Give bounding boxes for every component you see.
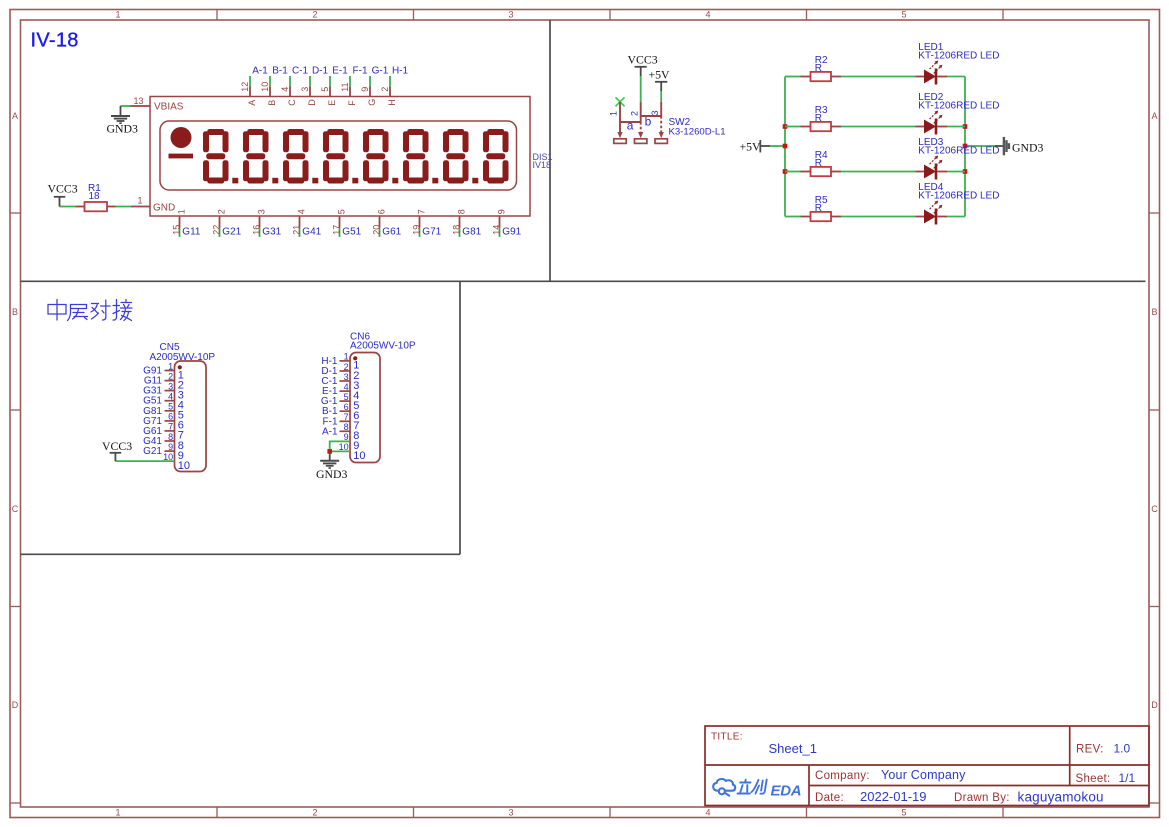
pin 21 (4) of DIS1	[292, 209, 307, 237]
pin 18 (8) of DIS1	[452, 209, 467, 237]
svg-text:a: a	[627, 119, 634, 133]
svg-text:3: 3	[508, 10, 513, 20]
svg-text:A: A	[247, 100, 257, 106]
digit 2	[243, 129, 269, 184]
wire R4 to LED3	[841, 171, 916, 173]
svg-text:7: 7	[417, 209, 427, 214]
svg-text:G91: G91	[502, 227, 521, 238]
wire CN6 pin9 to gnd	[330, 441, 350, 451]
junction right bus row3	[963, 169, 968, 174]
wire VCC3 to SW2 pin2	[640, 76, 642, 102]
CN6 pin 9	[344, 432, 360, 452]
wire +5V to left bus	[770, 145, 785, 147]
svg-text:20: 20	[372, 225, 382, 235]
pin 17 (5) of DIS1	[332, 209, 347, 237]
svg-text:D: D	[307, 99, 317, 106]
svg-text:K3-1260D-L1: K3-1260D-L1	[669, 127, 726, 138]
power flag +5V at led array	[740, 140, 771, 154]
svg-text:B: B	[12, 307, 18, 317]
svg-text:VCC3: VCC3	[48, 182, 78, 196]
svg-text:5: 5	[901, 10, 906, 20]
svg-text:C: C	[1151, 504, 1158, 514]
svg-text:1: 1	[344, 352, 349, 362]
svg-text:14: 14	[492, 225, 502, 235]
connector CN6 A2005WV-10P	[316, 331, 416, 481]
row 1: wire bus to R2	[785, 76, 801, 78]
svg-text:2022-01-19: 2022-01-19	[860, 789, 927, 804]
svg-text:A2005WV-10P: A2005WV-10P	[350, 341, 416, 352]
no-connect X on SW2 pin1	[616, 97, 625, 106]
svg-text:EDA: EDA	[771, 783, 802, 800]
CN5 pin 1	[165, 361, 184, 381]
svg-text:1: 1	[115, 10, 120, 20]
pin 4 (C) of DIS1	[280, 76, 297, 106]
title block frame	[705, 726, 1149, 806]
wire +5V to SW2 pin3	[660, 91, 662, 102]
pin 1 (GND) of DIS1	[131, 195, 150, 206]
svg-text:1: 1	[115, 808, 120, 818]
svg-text:F: F	[347, 100, 357, 106]
junction at CN6 gnd	[327, 449, 332, 454]
svg-text:3: 3	[508, 808, 513, 818]
section divider lines	[21, 20, 1146, 554]
pin 16 (3) of DIS1	[252, 209, 267, 237]
wire R5 to LED4	[841, 216, 916, 218]
digit 1	[203, 129, 229, 184]
svg-text:9: 9	[360, 87, 370, 92]
svg-text:15: 15	[172, 225, 182, 235]
decimal point 4	[352, 178, 358, 184]
svg-text:G21: G21	[222, 227, 241, 238]
decimal point 5	[392, 178, 398, 184]
wire left bus	[784, 77, 786, 217]
digit 6	[403, 129, 429, 184]
svg-text:5: 5	[344, 392, 349, 402]
digit 5	[363, 129, 389, 184]
CN5 pin 6	[165, 412, 184, 432]
section label 中层对接 (drawn strokes)	[48, 300, 132, 321]
svg-text:B-1: B-1	[272, 66, 288, 77]
svg-text:10: 10	[178, 460, 190, 472]
pin 5 (E) of DIS1	[320, 76, 337, 106]
svg-text:5: 5	[320, 87, 330, 92]
svg-text:1: 1	[177, 209, 187, 214]
row 4: wire bus to R5	[785, 216, 801, 218]
resistor R5	[801, 195, 842, 221]
power flag VCC3 at SW2	[628, 53, 658, 76]
power flag VCC3 at R1	[48, 182, 78, 207]
SW2 pole 2 leg	[640, 122, 642, 133]
svg-text:G61: G61	[382, 227, 401, 238]
svg-text:E: E	[327, 100, 337, 106]
pin 13 (VBIAS) of DIS1	[131, 96, 151, 106]
digit 3	[283, 129, 309, 184]
CN5 pin 4	[165, 392, 184, 412]
svg-text:19: 19	[412, 225, 422, 235]
svg-text:4: 4	[280, 87, 290, 92]
DIS1 inner display window	[160, 121, 517, 190]
svg-text:16: 16	[252, 225, 262, 235]
svg-text:2: 2	[344, 362, 349, 372]
svg-text:C: C	[287, 99, 297, 106]
connector CN5 A2005WV-10P	[102, 342, 215, 472]
pin 12 (A) of DIS1	[240, 76, 257, 106]
pin 2 (H) of DIS1	[380, 76, 397, 106]
ground GND3 at CN6	[320, 451, 339, 468]
svg-text:Date:: Date:	[815, 792, 844, 804]
svg-text:2: 2	[217, 209, 227, 214]
svg-text:Company:: Company:	[815, 770, 870, 782]
pin 22 (2) of DIS1	[212, 209, 227, 237]
svg-text:A: A	[12, 111, 18, 121]
CN6 pin 7	[340, 412, 360, 432]
svg-text:18: 18	[89, 191, 101, 202]
svg-text:4: 4	[344, 382, 349, 392]
svg-text:3: 3	[650, 110, 660, 115]
CN5 pin 8	[165, 432, 184, 452]
pin 15 (1) of DIS1	[172, 209, 187, 237]
svg-text:Sheet_1: Sheet_1	[769, 741, 817, 756]
resistor R2	[801, 55, 842, 81]
pin 3 (D) of DIS1	[300, 76, 317, 106]
decimal point 6	[432, 178, 438, 184]
decimal point 2	[272, 178, 278, 184]
led LED4 KT-1206RED	[916, 182, 1000, 224]
svg-text:A-1: A-1	[322, 426, 338, 437]
svg-text:8: 8	[344, 422, 349, 432]
ground GND3 at led array	[1004, 137, 1009, 155]
digit 8	[483, 129, 509, 184]
resistor R3	[801, 105, 842, 131]
svg-text:+5V: +5V	[649, 68, 671, 82]
svg-text:A-1: A-1	[252, 66, 268, 77]
CN6 pin 10	[339, 442, 366, 462]
power flag VCC3 at CN5	[102, 439, 132, 461]
svg-text:KT-1206RED LED: KT-1206RED LED	[918, 50, 999, 61]
svg-text:kaguyamokou: kaguyamokou	[1018, 789, 1104, 804]
SW2 pin 2	[640, 102, 642, 122]
svg-text:6: 6	[377, 209, 387, 214]
logo text 立创 (drawn)	[737, 780, 766, 794]
wire LED4 to right bus	[947, 216, 965, 218]
svg-text:9: 9	[497, 209, 507, 214]
svg-text:4: 4	[168, 392, 173, 402]
svg-text:R: R	[815, 203, 822, 214]
svg-text:G: G	[367, 99, 377, 106]
wire right bus	[964, 77, 966, 217]
CN5 pin 9	[165, 442, 184, 462]
svg-text:G41: G41	[302, 227, 321, 238]
svg-text:E-1: E-1	[332, 66, 348, 77]
svg-text:+5V: +5V	[740, 140, 762, 154]
wire GND3 tap	[965, 145, 995, 147]
CN6 pin 2	[340, 362, 360, 382]
svg-text:3: 3	[300, 87, 310, 92]
svg-text:13: 13	[133, 96, 143, 106]
svg-text:IV18: IV18	[533, 160, 552, 170]
svg-text:1: 1	[168, 361, 173, 371]
SW2 pole 1 leg	[619, 122, 621, 133]
svg-text:TITLE:: TITLE:	[711, 732, 743, 743]
svg-text:4: 4	[705, 10, 710, 20]
junction left bus row3	[783, 169, 788, 174]
led LED2 KT-1206RED	[916, 92, 1000, 134]
CN6 pin 8	[340, 422, 360, 442]
CN5 pin 3	[165, 381, 184, 401]
svg-text:VCC3: VCC3	[102, 439, 132, 453]
resistor R1	[76, 183, 116, 211]
wire R1 to pin1	[116, 206, 132, 208]
svg-text:A: A	[1151, 111, 1157, 121]
CN5 pin 5	[165, 402, 184, 422]
svg-text:Sheet:: Sheet:	[1076, 773, 1111, 785]
svg-text:5: 5	[901, 808, 906, 818]
DIS1 minus segment	[169, 154, 194, 159]
wire CN6 pin10 to gnd	[330, 450, 350, 452]
led LED1 KT-1206RED	[916, 42, 1000, 84]
svg-text:G11: G11	[182, 227, 201, 238]
pin 11 (F) of DIS1	[340, 76, 357, 106]
svg-text:2: 2	[168, 371, 173, 381]
CN5 pin 10	[163, 452, 190, 472]
wire LED1 to right bus	[947, 76, 965, 78]
pin 10 (B) of DIS1	[260, 76, 277, 106]
wire VCC3 to R1	[60, 206, 76, 208]
svg-text:3: 3	[168, 381, 173, 391]
pin 20 (6) of DIS1	[372, 209, 387, 237]
svg-text:17: 17	[332, 225, 342, 235]
svg-text:H-1: H-1	[392, 66, 409, 77]
pin 9 (G) of DIS1	[360, 76, 377, 106]
svg-text:Your Company: Your Company	[881, 768, 966, 782]
svg-text:4: 4	[297, 209, 307, 214]
svg-text:1: 1	[609, 111, 619, 116]
junction at GND3 tap	[963, 144, 968, 149]
svg-text:22: 22	[212, 225, 222, 235]
svg-text:H: H	[387, 99, 397, 106]
svg-text:C: C	[12, 504, 19, 514]
svg-text:1/1: 1/1	[1119, 771, 1136, 785]
svg-text:G21: G21	[143, 446, 162, 457]
SW2 pin 3	[660, 102, 662, 116]
svg-text:GND3: GND3	[1012, 140, 1044, 154]
svg-text:6: 6	[168, 412, 173, 422]
svg-text:7: 7	[168, 422, 173, 432]
digit 4	[323, 129, 349, 184]
wire R3 to LED2	[841, 126, 916, 128]
svg-text:7: 7	[344, 412, 349, 422]
CN6 pin 5	[340, 392, 360, 412]
svg-text:VCC3: VCC3	[628, 53, 658, 67]
svg-text:4: 4	[705, 808, 710, 818]
svg-text:G71: G71	[422, 227, 441, 238]
CN5 pin 2	[165, 371, 184, 391]
svg-text:IV-18: IV-18	[31, 30, 79, 52]
SW2 contact a	[620, 121, 641, 123]
svg-text:D-1: D-1	[312, 66, 329, 77]
svg-text:R: R	[815, 63, 822, 74]
svg-text:2: 2	[312, 10, 317, 20]
junction left bus row2	[783, 124, 788, 129]
svg-text:8: 8	[457, 209, 467, 214]
svg-text:Drawn By:: Drawn By:	[954, 792, 1010, 804]
SW2 contact b	[641, 115, 662, 117]
decimal point 3	[312, 178, 318, 184]
svg-text:B: B	[1151, 307, 1157, 317]
svg-text:B: B	[267, 100, 277, 106]
svg-text:10: 10	[260, 82, 270, 92]
title block	[705, 726, 1149, 806]
svg-text:12: 12	[240, 82, 250, 92]
decimal point 1	[232, 178, 238, 184]
led array section	[740, 42, 1044, 224]
svg-text:5: 5	[337, 209, 347, 214]
digit 7	[443, 129, 469, 184]
wire pin13 to GND3	[121, 105, 131, 107]
svg-text:6: 6	[344, 402, 349, 412]
wire CN5 pin10 to VCC3	[115, 460, 174, 462]
ground GND3 at DIS1	[111, 106, 130, 123]
svg-text:D: D	[12, 700, 19, 710]
svg-text:3: 3	[344, 372, 349, 382]
SW2 pin 1	[619, 102, 621, 122]
resistor R4	[801, 150, 842, 176]
svg-text:1.0: 1.0	[1114, 742, 1131, 756]
svg-text:C-1: C-1	[292, 66, 309, 77]
row 2: wire bus to R3	[785, 126, 801, 128]
wire R2 to LED1	[841, 76, 916, 78]
svg-text:R: R	[815, 158, 822, 169]
svg-text:10: 10	[353, 450, 365, 462]
switch SW2 K3-1260D-L1	[609, 53, 726, 144]
led LED3 KT-1206RED	[916, 137, 1000, 179]
decimal point 7	[472, 178, 478, 184]
CN5 pin 7	[165, 422, 184, 442]
CN6 pin 6	[340, 402, 360, 422]
svg-text:b: b	[645, 114, 652, 128]
row 3: wire bus to R4	[785, 171, 801, 173]
svg-text:11: 11	[340, 82, 350, 91]
svg-text:2: 2	[380, 87, 390, 92]
svg-text:18: 18	[452, 225, 462, 235]
svg-text:G51: G51	[342, 227, 361, 238]
CN6 pin 3	[340, 372, 360, 392]
CN6 body	[350, 353, 380, 463]
SW2 pole 3 leg	[660, 116, 662, 133]
svg-text:VBIAS: VBIAS	[154, 101, 184, 112]
junction right bus row2	[963, 124, 968, 129]
svg-text:1: 1	[137, 195, 142, 205]
svg-text:GND3: GND3	[107, 121, 139, 135]
CN6 pin 1	[340, 352, 360, 372]
svg-text:G-1: G-1	[372, 66, 389, 77]
wire LED2 to right bus	[947, 126, 965, 128]
pin 14 (9) of DIS1	[492, 209, 507, 237]
svg-text:2: 2	[629, 111, 639, 116]
power flag +5V at SW2	[649, 68, 671, 91]
svg-text:9: 9	[168, 442, 173, 452]
wire LED3 to right bus	[947, 171, 965, 173]
svg-text:G31: G31	[262, 227, 281, 238]
CN6 pin 4	[340, 382, 360, 402]
svg-text:D: D	[1151, 700, 1158, 710]
svg-text:8: 8	[168, 432, 173, 442]
DIS1 body outline	[150, 97, 530, 217]
svg-text:R: R	[815, 113, 822, 124]
svg-text:21: 21	[292, 225, 302, 235]
svg-text:5: 5	[168, 402, 173, 412]
svg-text:KT-1206RED LED: KT-1206RED LED	[918, 100, 999, 111]
DIS1 indicator dot	[171, 127, 192, 148]
svg-text:KT-1206RED LED: KT-1206RED LED	[918, 190, 999, 201]
pin 19 (7) of DIS1	[412, 209, 427, 237]
svg-text:3: 3	[257, 209, 267, 214]
svg-text:GND: GND	[153, 203, 175, 214]
svg-text:REV:: REV:	[1076, 744, 1104, 756]
svg-text:GND3: GND3	[316, 467, 348, 481]
CN5 body	[175, 361, 207, 472]
svg-text:F-1: F-1	[353, 66, 368, 77]
vfd display DIS1 IV18	[48, 66, 553, 238]
svg-text:KT-1206RED LED: KT-1206RED LED	[918, 145, 999, 156]
logo lceda cloud	[713, 779, 801, 800]
svg-text:G81: G81	[462, 227, 481, 238]
svg-text:2: 2	[312, 808, 317, 818]
junction at +5V tap	[783, 144, 788, 149]
